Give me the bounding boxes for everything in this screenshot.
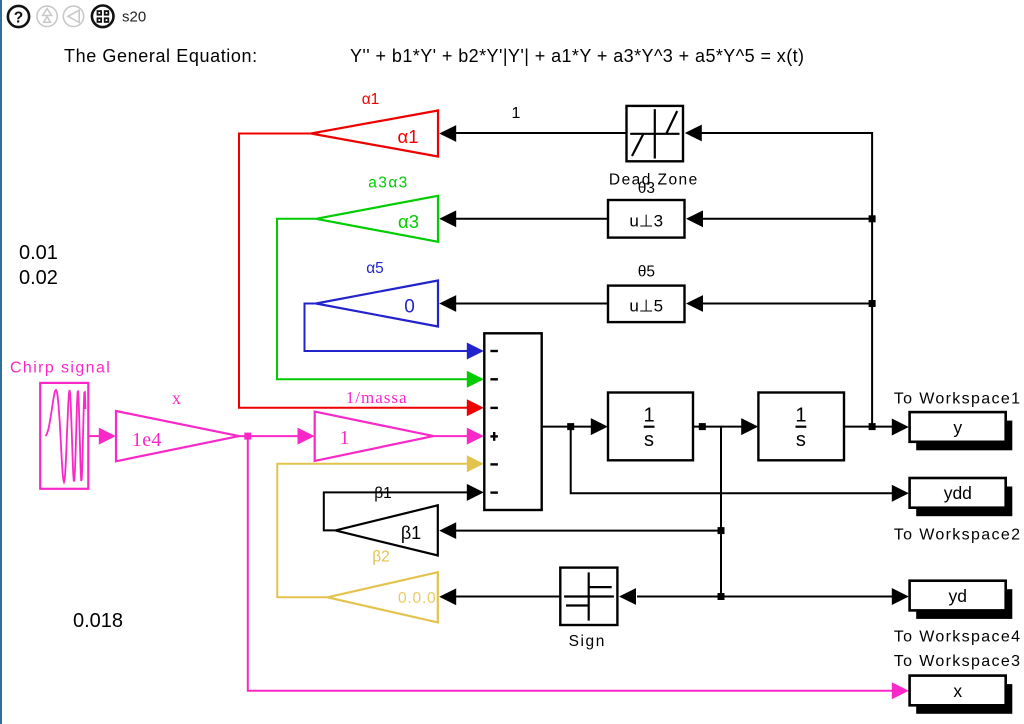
svg-text:1e4: 1e4 <box>132 429 162 451</box>
wire: dead zone output to red gain <box>455 132 627 134</box>
wire: branch vertical between integrators down to sign row <box>720 427 722 597</box>
arrowhead into sign block <box>619 588 636 605</box>
wire: integrator 2 output to y block <box>844 426 893 428</box>
arrowhead into beta2 gain <box>439 588 456 605</box>
svg-text:0.01: 0.01 <box>19 242 58 264</box>
svg-text:β2: β2 <box>372 548 390 565</box>
wire: u5 output to blue gain <box>455 303 608 305</box>
junction dot feedback u3 <box>869 215 876 222</box>
chirp signal block <box>40 383 88 489</box>
integrator 2 block <box>758 393 844 461</box>
gain alpha1 (red) <box>311 111 438 157</box>
wire: red gain output feedback to sum input 3 <box>239 134 468 408</box>
to workspace yd block <box>910 581 1013 619</box>
svg-text:Sign: Sign <box>569 633 606 650</box>
wire: feedback branch to u3 <box>702 218 873 220</box>
svg-text:Chirp signal: Chirp signal <box>10 359 111 376</box>
svg-text:α1: α1 <box>362 91 380 108</box>
svg-text:y: y <box>953 417 962 437</box>
arrowhead into x block <box>892 682 909 699</box>
svg-text:θ5: θ5 <box>638 264 655 281</box>
arrowhead yellow into sum <box>467 455 484 472</box>
arrowhead into integrator 1 <box>591 418 608 435</box>
wire: feedback branch to u5 <box>702 303 873 305</box>
u^3 block <box>608 200 685 238</box>
to workspace ydd block <box>910 478 1013 516</box>
arrowhead into 1 gain <box>298 428 315 445</box>
svg-text:Y'' + b1*Y' + b2*Y'|Y'| + a1*Y: Y'' + b1*Y' + b2*Y'|Y'| + a1*Y + a3*Y^3 … <box>350 46 804 66</box>
svg-text:1: 1 <box>340 427 350 449</box>
wire: 1e4 gain output to 1 gain <box>239 435 299 437</box>
arrowhead into yd block <box>892 588 909 605</box>
wire: integrator 1 output to integrator 2 <box>693 426 742 428</box>
arrowhead into 1e4 gain <box>99 428 116 445</box>
svg-text:θ3: θ3 <box>638 180 655 197</box>
junction dot sign branch <box>718 593 725 600</box>
svg-text:s20: s20 <box>122 9 146 26</box>
toolbar overview grid button <box>92 5 114 27</box>
u^5 block <box>608 286 685 323</box>
wire: 1 gain output to sum input 4 <box>434 435 469 437</box>
junction dot integrator 2 output <box>869 423 876 430</box>
sum block <box>484 333 541 510</box>
sign block <box>560 568 617 625</box>
svg-text:1: 1 <box>795 404 806 426</box>
junction dot x branch <box>244 433 251 440</box>
junction dot beta1 branch <box>718 527 725 534</box>
arrowhead magenta into sum <box>467 428 484 445</box>
arrowhead into red gain <box>439 125 456 142</box>
wire: sum output to integrator 1 <box>542 426 592 428</box>
gain beta1 (black) <box>335 505 437 555</box>
toolbar back button (disabled) <box>63 6 83 26</box>
gain alpha5 (blue) <box>316 281 438 327</box>
wire: sign output to beta2 gain <box>455 596 560 598</box>
wire: blue gain output to sum input 1 <box>305 304 469 352</box>
svg-text:To Workspace2: To Workspace2 <box>894 526 1022 543</box>
svg-text:x: x <box>953 681 962 701</box>
arrowhead into u5 <box>686 295 703 312</box>
integrator 1 block <box>608 393 693 461</box>
arrowhead into dead zone <box>685 125 702 142</box>
to workspace y block <box>910 412 1013 450</box>
svg-text:α1: α1 <box>398 126 419 147</box>
svg-text:u⊥5: u⊥5 <box>629 297 663 316</box>
svg-text:s: s <box>796 429 806 451</box>
wire: right feedback vertical with top run to dead zone <box>701 133 873 427</box>
wire: sum output branch down to ydd <box>571 427 893 494</box>
svg-text:x: x <box>172 388 181 408</box>
junction dot feedback u5 <box>869 300 876 307</box>
svg-text:To Workspace3: To Workspace3 <box>894 653 1022 670</box>
arrowhead into green gain <box>439 210 456 227</box>
svg-text:α5: α5 <box>366 260 384 277</box>
svg-text:0: 0 <box>404 297 415 318</box>
to workspace x block <box>910 676 1013 714</box>
arrowhead into y block <box>892 419 909 436</box>
svg-text:0.018: 0.018 <box>73 610 123 632</box>
svg-text:β1: β1 <box>374 485 392 502</box>
arrowhead black into sum <box>467 484 484 501</box>
arrowhead into beta1 gain <box>439 522 456 539</box>
svg-text:s: s <box>644 429 654 451</box>
wire: branch right to yd block <box>721 596 893 598</box>
arrowhead into ydd block <box>892 485 909 502</box>
junction dot integrator 1 output <box>699 423 706 430</box>
svg-text:?: ? <box>14 9 23 26</box>
wire: branch to sign block input <box>637 596 721 598</box>
svg-text:a3α3: a3α3 <box>368 174 408 191</box>
arrowhead red into sum <box>467 399 484 416</box>
wire: green gain output to sum input 2 <box>277 219 468 379</box>
svg-text:1/massa: 1/massa <box>346 388 408 407</box>
svg-text:ydd: ydd <box>944 483 972 503</box>
svg-text:β1: β1 <box>401 523 421 543</box>
wire: chirp output to 1e4 gain <box>88 435 100 437</box>
dead zone block <box>627 106 684 161</box>
toolbar help button <box>8 6 29 27</box>
svg-text:0.02: 0.02 <box>19 267 58 289</box>
junction dot sum output <box>567 423 574 430</box>
wire: x signal branch down to x block <box>248 436 893 691</box>
gain 1/massa (magenta) <box>315 412 434 461</box>
svg-text:1: 1 <box>643 404 654 426</box>
arrowhead blue into sum <box>467 343 484 360</box>
svg-text:1: 1 <box>512 105 521 122</box>
gain alpha3 (green) <box>316 196 438 242</box>
arrowhead into u3 <box>686 210 703 227</box>
gain beta2 (yellow) <box>328 572 438 622</box>
svg-text:To Workspace1: To Workspace1 <box>894 390 1022 407</box>
gain 1e4 (magenta) <box>116 411 239 461</box>
wire: u3 output to green gain <box>455 218 608 220</box>
left window border <box>0 0 2 724</box>
svg-text:u⊥3: u⊥3 <box>629 212 663 231</box>
toolbar up-to-parent button (disabled) <box>37 6 57 26</box>
svg-text:0.0.0: 0.0.0 <box>398 590 436 607</box>
wire: beta1 gain output loop to sum input 6 <box>324 492 468 530</box>
svg-text:α3: α3 <box>398 211 419 232</box>
wire: beta2 gain output loop to sum input 5 <box>277 464 468 598</box>
svg-text:The General Equation:: The General Equation: <box>64 46 258 66</box>
arrowhead green into sum <box>467 371 484 388</box>
wire: branch to beta1 gain input <box>455 530 721 532</box>
arrowhead into blue gain <box>439 295 456 312</box>
svg-text:yd: yd <box>949 586 967 606</box>
arrowhead into integrator 2 <box>741 418 758 435</box>
svg-text:To Workspace4: To Workspace4 <box>894 629 1022 646</box>
